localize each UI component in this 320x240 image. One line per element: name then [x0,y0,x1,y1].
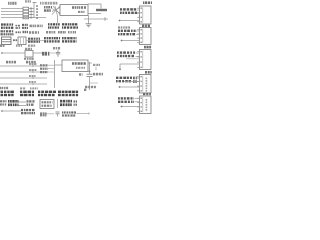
J5 pin net labels [118,97,134,99]
wire [77,113,90,115]
connector J5 pins [137,97,139,99]
crystal Y1 label [93,64,100,66]
connector J5 refdes [143,93,151,96]
junction dot [1,110,3,112]
wire [1,8,23,10]
junction dot [89,71,91,73]
wire [19,105,27,107]
resistor pack RN1 label [8,2,17,5]
wire [33,52,42,54]
junction dot [1,52,3,54]
junction dot [119,86,121,88]
capacitor C19 [57,50,59,53]
ground GND1 [86,23,92,25]
C22 value [62,111,76,113]
plus mark [79,73,83,76]
net label clusters band B [1,30,14,32]
bus label 1 [6,61,16,64]
pin squares column [36,5,38,7]
resistor network RN1 [23,7,29,10]
connector J1 body [140,6,152,24]
junction dot [119,20,121,22]
wire tick [88,112,90,114]
value 180 [42,52,49,56]
wire [47,113,55,115]
connector J1 pins [137,7,139,9]
pin label 3 [40,71,48,73]
label above bus [25,0,31,2]
pin label 1 [40,64,48,66]
wire [88,16,90,24]
wire to J4 [124,81,140,83]
wire [100,4,102,9]
C19 label [53,47,60,49]
relay K1 box [2,37,12,45]
connector J4 part number (vertical) [146,78,148,80]
net label clusters band A right [48,23,60,25]
wire [55,64,63,66]
wire stub to J3 [136,52,140,54]
junction dot [121,40,123,42]
label below J1 [118,26,130,28]
wire stub to J1 [137,12,140,14]
resistor R8 box [25,51,33,58]
wire stub to J2 [136,30,140,32]
wire [2,110,21,112]
wire [26,40,44,42]
capacitor C6 tick [104,17,106,21]
net label clusters band A [1,23,13,25]
label [40,112,47,116]
J3 pin net labels [117,51,135,53]
U7 text [42,101,53,103]
tiny mark [84,89,86,91]
labels band B right [46,31,55,34]
wire to J1 [119,20,140,22]
IC U7 box [40,100,54,109]
wire to J3 [126,58,140,60]
wire to J4 [136,77,140,79]
IC U5 box [18,37,26,45]
label left of U6 [0,100,7,102]
connector J5 body [140,96,152,114]
wire to J2 [121,40,140,42]
net labels band C [28,38,40,40]
wire [95,67,97,71]
wire [88,3,101,5]
wire [19,101,27,103]
wire stub [119,64,121,70]
U1 part number [72,6,86,9]
resistor R5 [96,9,107,11]
wire [2,52,25,54]
connector J1 refdes [143,1,152,4]
junction dot [119,68,121,70]
wire [88,13,101,15]
small text [16,45,22,47]
pin label 2 [40,68,48,70]
wire to J3 [120,63,140,65]
wire [1,17,46,19]
J1 pin net labels [120,8,136,10]
vcc tick [33,2,37,4]
connector J2 refdes [142,25,150,28]
connector J2 pins [137,29,139,31]
connector J4 body [140,75,152,94]
capacitor C22 [56,111,60,113]
wire stub to J5 [135,97,140,99]
bus wires [0,65,47,67]
wire crossing bundle [52,9,60,14]
label E1 [0,45,5,47]
pin stub wires [48,64,55,66]
wire [88,62,92,64]
pin number [133,77,137,80]
wire to J4 [119,86,140,88]
wire [1,11,23,13]
op-amp U1 box [60,5,88,16]
connector J3 refdes [144,46,151,49]
wire [90,82,99,84]
vcc bus wire [33,3,35,18]
connector J2 body [140,28,152,45]
testpoint labels [44,6,52,9]
wire stub to J2 [136,33,140,35]
small marks [20,87,25,89]
C12 value [93,73,103,76]
U2 part number [72,62,86,65]
label [0,87,8,89]
net label bottom [21,109,35,111]
wire [57,16,59,23]
net labels above U1 [40,2,57,5]
labels right of U7 [60,100,72,103]
wire [50,52,56,54]
wire stub to J1 [137,9,140,11]
wire [1,14,23,16]
connector J5 part number (vertical) [146,99,148,101]
marks [74,100,78,102]
J2 pin net labels [118,30,136,32]
connector J3 pins [137,51,139,53]
wire [89,62,91,74]
text below C12 [85,86,96,88]
net label clusters bottom band [1,91,14,93]
pin labels left of U7 [27,100,35,102]
wire [57,99,59,108]
connector J4 refdes [145,71,152,74]
wire [84,18,108,20]
equals mark [13,39,17,41]
vertical bus wire [54,60,56,88]
bus label 2 [26,61,36,64]
capacitor C12 [87,73,93,75]
IC U6 labels [8,100,19,103]
junction dot [121,106,123,108]
R8 value [24,58,34,60]
wire stub to J3 [136,55,140,57]
wire to J5 [121,106,140,108]
IC U2 box [62,60,88,72]
value text 1.102 [30,25,44,28]
J4 pin net labels [116,77,132,79]
connector J3 body [140,50,152,70]
wire [89,77,91,90]
R8 refdes [25,48,32,50]
connector J4 pins [137,76,139,78]
wire stub to J5 [135,101,140,103]
